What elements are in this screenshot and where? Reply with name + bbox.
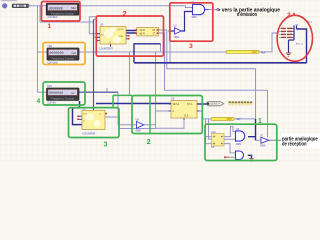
pin stubs right (126, 31, 130, 39)
svg-text:CLK=4MHz: CLK=4MHz (48, 15, 59, 19)
wire stub x107 up (106, 88, 108, 92)
inline label GENE 4 (207, 101, 224, 105)
wire FF clk bottom (156, 118, 185, 128)
svg-text:Frequency Counter: Frequency Counter (51, 11, 74, 15)
svg-text:0000000: 0000000 (49, 52, 63, 56)
wire U6 out to clk line (106, 117, 156, 129)
wire dac gnd (289, 40, 295, 53)
wire V x170 (169, 41, 171, 63)
wire arrowhead (217, 8, 220, 12)
R-2R ladder DAC (279, 22, 313, 46)
svg-text:GENE 4: GENE 4 (210, 102, 220, 106)
wire buffer2 out / FF C (144, 111, 171, 125)
wire small IC out B to y68.7 rail (158, 30, 256, 119)
red box 2 (96, 16, 163, 56)
wire clock top H y6.3 (29, 6, 193, 8)
svg-text:4069: 4069 (260, 145, 266, 148)
wire instr3 right to x118 (79, 91, 118, 93)
wire resistor1 right (234, 118, 256, 120)
svg-text:4081: 4081 (236, 143, 242, 146)
wire corner x93.5 top (94, 19, 101, 37)
svg-text:U3: U3 (100, 23, 104, 27)
wire green H into box2 (113, 94, 132, 96)
wire buffer3 output gray (269, 139, 282, 141)
svg-text:kHz: kHz (72, 51, 77, 55)
wire comp out B to gate2 input A (224, 144, 236, 153)
instrument 3 (counter timer) (47, 88, 80, 100)
svg-text:4: 4 (37, 98, 41, 105)
buffer U2 (174, 25, 182, 39)
wire buffer1 in (169, 30, 175, 32)
IC U3 counter (96, 27, 129, 47)
wire V x93.5 clock down to U6 (93, 19, 95, 110)
green wires (113, 95, 150, 133)
IC U4 (135, 27, 158, 36)
svg-text:BCL_5: BCL_5 (296, 44, 303, 46)
wire green V x113 (112, 95, 114, 107)
wire V x118 down to buffer2 (118, 92, 137, 125)
wire small IC out A to y90.3 rail (158, 33, 268, 137)
instrument 1 (counter timer) (46, 3, 79, 15)
wire navy bus y62.8 (134, 62, 307, 64)
wire gate1 out up (248, 119, 256, 140)
wire gate1 input B long (209, 138, 236, 140)
wire U3 to U4 (126, 31, 136, 34)
svg-text:GND: GND (119, 36, 124, 38)
svg-text:1: 1 (48, 23, 52, 30)
wire to opto pin1/pin2 (206, 119, 212, 144)
yellow box (43, 43, 85, 65)
wire arrow emission (209, 9, 217, 11)
pin bottom (110, 44, 112, 47)
wire navy H y103.5 to FF (96, 103, 171, 105)
svg-text:0000000: 0000000 (49, 92, 63, 96)
FF IC U5 (169, 101, 200, 120)
ground (gate U11 output) (249, 158, 253, 161)
wire gate2 input B (229, 156, 236, 158)
svg-text:40-4: 40-4 (308, 22, 313, 24)
AND gate U1 (192, 1, 209, 19)
wire H y52 main (38, 51, 227, 53)
red box 3 (170, 3, 213, 41)
buffer U7 (260, 135, 269, 148)
ground (DAC) (286, 53, 291, 56)
svg-text:CLK: CLK (83, 114, 88, 116)
wire FF Q to oval (197, 103, 207, 105)
AND gate U11 (236, 151, 244, 160)
svg-text:SET-A: SET-A (173, 103, 180, 106)
power flag (gate U11 input) (225, 156, 230, 158)
svg-text:CLK: CLK (184, 115, 189, 117)
svg-text:MHz: MHz (71, 6, 77, 10)
instrument 2 (counter timer) (47, 48, 79, 60)
svg-text:4k7: 4k7 (236, 117, 241, 121)
wire resistor2 right to ladder (259, 33, 279, 52)
wire H y92.2 long left (38, 91, 119, 93)
svg-text:Frequency Counter: Frequency Counter (51, 56, 74, 60)
resistor R2 4k4 (226, 50, 266, 54)
svg-text:U10: U10 (211, 131, 216, 134)
svg-text:Frequency Counter: Frequency Counter (51, 96, 74, 100)
dip switch SW1 (12, 4, 30, 8)
svg-text:CLK=1Hz: CLK=1Hz (47, 100, 57, 104)
svg-text:4081: 4081 (192, 16, 198, 19)
svg-text:4069: 4069 (136, 130, 142, 133)
svg-text:TR5: TR5 (47, 85, 52, 88)
wire navy U path above bus (134, 44, 161, 63)
wire gate2 out (248, 155, 252, 158)
wire green V x150 (149, 95, 151, 133)
title smudge top-left (1, 0, 17, 1)
svg-text:COUNTER/T: COUNTER/T (99, 46, 113, 50)
svg-text:COUNTER: COUNTER (82, 131, 95, 135)
wire comp out A snake to gate1 input A (224, 127, 236, 137)
red box 1 (42, 2, 81, 22)
svg-text:2: 2 (147, 139, 151, 146)
svg-text:QT-A: QT-A (187, 103, 193, 106)
resistor R1 4k7 (211, 117, 241, 121)
svg-text:Q12-R: Q12-R (118, 29, 125, 31)
wire instr3 to U6 C path (73, 101, 83, 125)
wire dac out (297, 29, 307, 63)
red circle (277, 15, 312, 61)
wire V x37.5 (37, 6, 39, 92)
svg-text:4k4: 4k4 (261, 50, 266, 54)
svg-text:A2-R: A2-R (140, 29, 146, 32)
wire corner to U3 pin1 (89, 17, 100, 34)
wire buffer1 out up to gate (181, 12, 193, 32)
svg-text:B2-R: B2-R (140, 33, 146, 35)
green box 2 (132, 96, 202, 134)
svg-text:2: 2 (123, 9, 127, 18)
svg-text:0000000: 0000000 (49, 7, 63, 11)
svg-text:de réception: de réception (282, 142, 307, 148)
wire V x208.5 (208, 119, 210, 139)
IC U6 counter (77, 110, 107, 129)
wire V x160.5 short (160, 44, 162, 52)
wire V x155.5 clock down (155, 52, 157, 128)
wire buffer3 input (256, 139, 262, 141)
svg-text:3: 3 (104, 142, 108, 149)
svg-text:d'émission: d'émission (237, 12, 257, 18)
green box 4 (43, 82, 85, 105)
resistor pack RN1 (229, 101, 253, 105)
buffer U8 (136, 118, 144, 132)
green box 3 (69, 108, 120, 138)
text reception (281, 134, 320, 149)
pin stubs left (97, 34, 101, 41)
wire FF Q2 to resistor1 (197, 111, 211, 119)
svg-text:U5: U5 (171, 97, 175, 101)
svg-text:4069: 4069 (174, 36, 180, 39)
opto-coupler U10 (212, 134, 225, 147)
wire V x129.5 (129, 52, 131, 95)
wire H y22 from V x40 (40, 6, 94, 22)
svg-text:3: 3 (189, 43, 193, 50)
svg-text:1: 1 (258, 118, 262, 125)
svg-text:TR2: TR2 (47, 45, 52, 48)
AND gate U9 (236, 128, 245, 146)
logic probe P1 (2, 4, 7, 9)
green box 1 (205, 124, 277, 160)
